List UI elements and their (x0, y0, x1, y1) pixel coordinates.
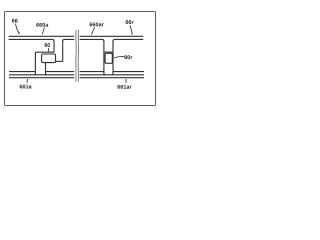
wire: shelf joining pad 90 to conductor (56, 60, 63, 62)
wire: left conductor left line from top bar (53, 41, 55, 52)
wire: bottom bar middle line (left of break) (9, 74, 74, 76)
leader for 660a (42, 28, 44, 35)
break line right (77, 30, 79, 82)
label 66r (126, 20, 134, 24)
label 661ar (117, 85, 131, 89)
wire: bottom bar 661ar top line segment 1 (80, 71, 104, 73)
wire: descender from pad 90 to bottom bar (46, 63, 47, 75)
wire: bottom bar middle line (right of break) (80, 74, 144, 76)
wire: top bar 660a lower line segment 1 (9, 39, 54, 41)
label 660a (36, 23, 48, 27)
wire: left slab top edge (35, 52, 54, 53)
label 661a (20, 85, 32, 89)
wire: bottom bar 661a top line segment 2 (46, 71, 75, 73)
wire: bottom lower line 661ar (right of break) (80, 77, 144, 79)
pad 90r (105, 53, 112, 63)
label 90 (44, 43, 50, 47)
wire: right conductor left line (104, 41, 105, 75)
wire: bottom bar 661a top line segment 1 (9, 71, 35, 73)
label 90r (124, 55, 132, 59)
wire: left slab left edge down to bottom bar (34, 53, 35, 74)
leader arrow for 66 (15, 24, 18, 33)
wire: left conductor right line from top bar (62, 41, 64, 62)
label 660ar (90, 22, 104, 26)
break line left (75, 30, 77, 82)
wire: bottom lower line 661a (left of break) (9, 77, 74, 79)
wire: right conductor right line (112, 41, 113, 75)
leader for 660ar (92, 27, 95, 34)
wire: top bar 660ar lower line segment 2 (113, 39, 143, 41)
wire: top bar 660ar lower line segment 1 (80, 39, 104, 41)
label 66 (12, 19, 18, 23)
leader for 66r (130, 25, 132, 35)
leader for 90r (114, 57, 125, 58)
figure frame (5, 12, 156, 106)
leader for 661ar (125, 79, 127, 83)
wire: top bar 660ar upper line (right of break) (80, 35, 144, 37)
wire: top bar 660a upper line (left of break) (9, 35, 75, 37)
leader for 661a (26, 79, 29, 83)
wire: bottom bar 661ar top line segment 2 (113, 71, 144, 73)
wire: right slab top edge (104, 51, 113, 53)
wire: top bar 660a lower line segment 2 (63, 39, 74, 41)
leader for 90 (48, 48, 50, 52)
pad 90 (42, 54, 56, 63)
